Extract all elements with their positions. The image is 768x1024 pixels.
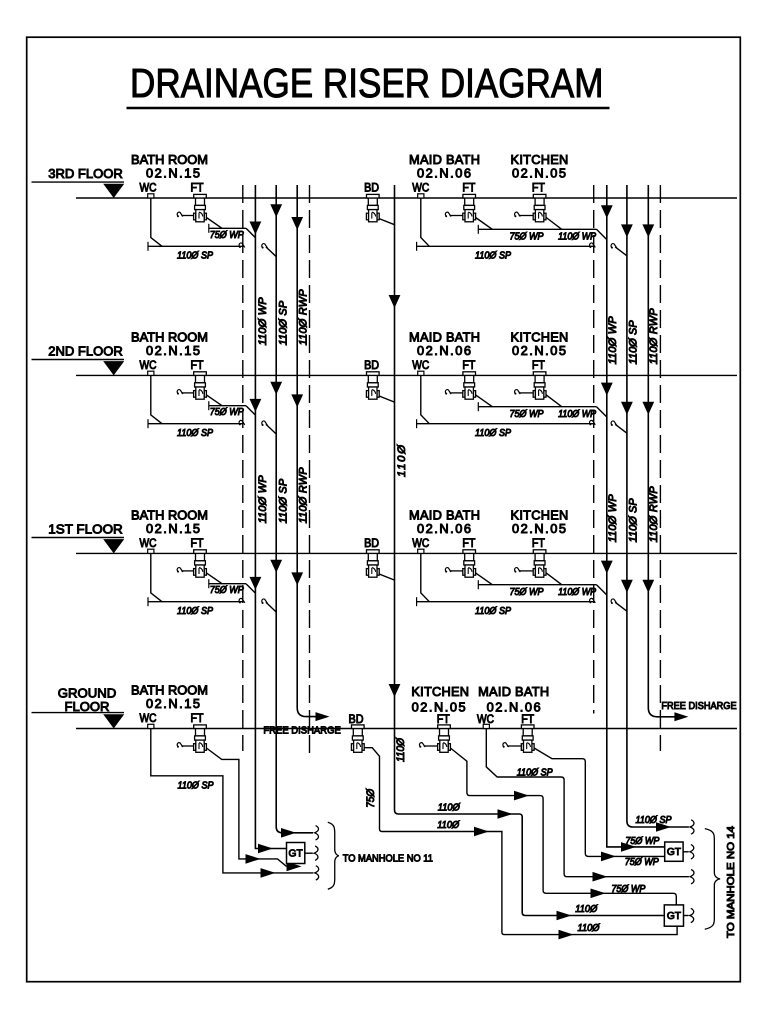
riser label 110&#216; RWP left [298, 467, 310, 524]
riser 110 SP right [627, 185, 689, 827]
pipe GT outlet right lower [684, 915, 689, 917]
pipe break squiggle GT right upper [690, 845, 694, 859]
room label KITCHEN ground [411, 684, 469, 714]
flow arrow maid FT line [601, 852, 616, 862]
pipe label 75 WP maid bath [510, 409, 544, 420]
flow arrow SP riser outfall [281, 828, 296, 838]
svg-text:110Ø WP: 110Ø WP [257, 297, 269, 346]
pipe 75 WP branch bathroom [209, 224, 256, 238]
fixture label FT kitchen [532, 181, 545, 195]
pipe break curl at wall [239, 420, 245, 425]
svg-text:WC: WC [140, 536, 157, 550]
fixture label FT kitchen [532, 536, 545, 550]
svg-text:TO MANHOLE NO 14: TO MANHOLE NO 14 [726, 826, 737, 938]
svg-text:BD: BD [364, 358, 379, 372]
fixture labels WC FT maid bath [412, 536, 475, 550]
riser 110 WP right [607, 185, 665, 847]
pipe break curl at riser right [611, 421, 617, 426]
flow arrow central line 2 [557, 911, 572, 921]
pipe 110 SP branch bathroom [148, 242, 243, 251]
bell drain BD [366, 372, 394, 402]
svg-text:110Ø: 110Ø [396, 444, 408, 477]
svg-text:110Ø SP: 110Ø SP [475, 428, 512, 439]
room label KITCHEN [511, 152, 569, 180]
svg-text:KITCHEN: KITCHEN [411, 684, 469, 699]
pipe label 110 BD line 2 [578, 923, 600, 934]
svg-text:110Ø SP: 110Ø SP [177, 606, 214, 617]
pipe break curl at riser right [611, 599, 617, 604]
svg-text:2ND FLOOR: 2ND FLOOR [48, 343, 122, 358]
svg-text:FT: FT [462, 536, 475, 550]
pipe diagonal into SP riser [266, 424, 276, 434]
room label BATH ROOM [131, 330, 208, 358]
svg-text:DRAINAGE RISER DIAGRAM: DRAINAGE RISER DIAGRAM [130, 60, 604, 106]
pipe WC drop maid bath [421, 198, 430, 246]
pipe diagonal FT outlet kitchen [546, 395, 562, 407]
vent arrow FT maid bath [445, 390, 463, 395]
riser label 110 central below ground [395, 737, 407, 762]
svg-text:110Ø WP: 110Ø WP [558, 231, 596, 242]
WC fixture bathroom [148, 371, 154, 375]
vent arrow FT bathroom ground [177, 743, 194, 748]
riser 110 RWP right [648, 185, 674, 717]
flow arrow WP riser outfall [258, 844, 273, 854]
svg-text:75Ø WP: 75Ø WP [611, 884, 645, 895]
pipe label 110 central line 2 [575, 904, 597, 915]
flow arrow kitchen line 2 [591, 889, 606, 899]
svg-text:FT: FT [437, 712, 450, 726]
flow arrow riser RWP left [291, 217, 303, 230]
pipe WC drop bathroom floor y=375.4 [151, 375, 162, 423]
pipe label 110 SP bathroom [177, 606, 214, 617]
flow arrow riser WP left [250, 399, 262, 412]
flow arrow riser RWP right [642, 402, 654, 415]
pipe break curl at wall right [589, 420, 595, 425]
svg-text:02.N.15: 02.N.15 [146, 166, 200, 181]
riser label 110 central [396, 444, 408, 477]
svg-text:02.N.05: 02.N.05 [512, 343, 566, 358]
pipe break curl at wall right [589, 243, 595, 248]
svg-text:110Ø RWP: 110Ø RWP [648, 486, 660, 543]
fixture labels WC FT maid bath [412, 181, 475, 195]
label FREE DISHARGE left [263, 725, 341, 736]
pipe diagonal into SP riser right [615, 424, 627, 433]
svg-text:GT: GT [667, 911, 681, 922]
riser label 110&#216; WP right [607, 316, 619, 365]
svg-text:110Ø SP: 110Ø SP [278, 300, 290, 345]
riser label 110&#216; SP left [278, 300, 290, 345]
svg-text:02.N.06: 02.N.06 [417, 166, 471, 181]
gully trap GT manhole 14 upper [665, 842, 683, 861]
vent arrow FT bathroom [177, 568, 194, 573]
svg-text:110Ø RWP: 110Ø RWP [298, 289, 310, 346]
room label BATH ROOM ground [131, 683, 208, 711]
pipe WC drop bathroom floor y=553.4 [151, 553, 162, 601]
room label BATH ROOM [131, 152, 208, 180]
pipe break squiggle GT outlet [314, 846, 318, 860]
flow arrow maid WC line [593, 872, 608, 882]
label TO MANHOLE NO 11 [343, 853, 434, 864]
WC fixture maid bath [418, 194, 424, 198]
svg-text:MAID BATH: MAID BATH [478, 684, 549, 699]
floor trap FT bathroom ground [194, 725, 207, 752]
svg-text:FT: FT [462, 181, 475, 195]
svg-text:110Ø WP: 110Ø WP [558, 587, 596, 598]
svg-text:BD: BD [364, 536, 379, 550]
pipe label 110 SP maid bath [475, 428, 512, 439]
pipe diagonal FT outlet bathroom [206, 218, 222, 229]
pipe break curl at wall [239, 598, 245, 603]
flow arrow riser RWP right [642, 580, 654, 593]
flow arrow riser RWP left [291, 394, 303, 407]
floor trap FT kitchen [533, 550, 546, 577]
vent arrow FT bathroom [177, 212, 194, 217]
flow arrow riser WP left [250, 222, 262, 235]
pipe break curl at wall right [589, 598, 595, 603]
svg-text:75Ø WP: 75Ø WP [210, 407, 244, 418]
WC fixture maid bath [418, 549, 424, 553]
svg-text:110Ø SP: 110Ø SP [178, 781, 215, 792]
svg-text:WC: WC [140, 711, 157, 725]
pipe diagonal FT outlet maid bath [476, 218, 493, 230]
flow arrow riser WP right [601, 561, 613, 574]
WC fixture maid bath [418, 371, 424, 375]
label BD [364, 358, 379, 372]
vent arrow FT maid bath [445, 568, 463, 573]
label BD [364, 181, 379, 195]
free discharge arrow right RWP [674, 712, 688, 721]
pipe 110 SP branch maid bath [417, 242, 594, 251]
svg-text:110Ø SP: 110Ø SP [278, 478, 290, 523]
shaft wall dashed left 2 [309, 185, 311, 759]
svg-text:FT: FT [462, 358, 475, 372]
flow arrow right SP outfall [656, 822, 671, 832]
svg-text:WC: WC [477, 712, 494, 726]
pipe 110 SP branch bathroom [148, 419, 243, 428]
pipe label 110 SP bathroom [177, 428, 214, 439]
gully trap GT manhole 11 [287, 843, 305, 864]
pipe diagonal into SP riser right [615, 247, 627, 256]
riser label 110&#216; RWP right [648, 486, 660, 543]
svg-text:110Ø RWP: 110Ø RWP [298, 467, 310, 524]
svg-text:02.N.15: 02.N.15 [146, 696, 200, 711]
vent arrow FT kitchen ground [419, 743, 437, 748]
svg-text:02.N.05: 02.N.05 [512, 521, 566, 536]
svg-text:75Ø WP: 75Ø WP [625, 836, 659, 847]
svg-text:FT: FT [191, 181, 204, 195]
floor trap FT kitchen [533, 372, 546, 399]
gully trap GT manhole 14 lower [664, 905, 683, 926]
riser label 110&#216; RWP left [298, 289, 310, 346]
pipe label 110 SP maid ground [517, 768, 554, 779]
room label KITCHEN [511, 508, 569, 536]
vent arrow FT maid ground [503, 743, 522, 748]
flow arrow riser WP right [601, 205, 613, 218]
label TO MANHOLE NO 14 [726, 826, 737, 938]
flow arrow into gully trap [287, 862, 302, 872]
flow arrow central line 1 [498, 809, 513, 819]
riser label 110&#216; WP right [607, 494, 619, 543]
shaft wall dashed right 1 [593, 185, 595, 714]
pipe label 110 SP maid bath [475, 606, 512, 617]
svg-text:WC: WC [140, 181, 157, 195]
riser 110 WP left (waste pipe) [255, 185, 286, 849]
floor line 2ND FLOOR [32, 343, 738, 375]
vent arrow FT maid bath [445, 212, 463, 217]
bell drain BD [366, 550, 394, 580]
svg-text:110Ø SP: 110Ø SP [517, 768, 554, 779]
riser 110 RWP left (rain water pipe) [297, 185, 316, 717]
floor trap FT maid bath [463, 550, 476, 577]
svg-text:110Ø: 110Ø [437, 820, 459, 831]
pipe 75/110 WP branch to WP riser [478, 225, 607, 240]
pipe label 75 WP maid ground [625, 857, 659, 868]
floor trap FT maid bath ground [521, 725, 534, 752]
pipe label 75 WP maid bath [510, 231, 544, 242]
svg-text:FT: FT [191, 711, 204, 725]
floor line 1ST FLOOR [32, 521, 738, 553]
flow arrow riser SP right [621, 402, 633, 415]
floor line 3RD FLOOR [32, 166, 738, 198]
flow arrow FT line ground [246, 854, 261, 864]
svg-text:TO MANHOLE NO 11: TO MANHOLE NO 11 [343, 853, 434, 864]
WC fixture bathroom [148, 194, 154, 198]
flow arrow riser SP left [270, 204, 282, 217]
svg-text:75Ø WP: 75Ø WP [625, 857, 659, 868]
pipe GT outlet right upper [683, 851, 689, 853]
pipe diagonal FT outlet kitchen [546, 573, 562, 585]
pipe label 110 SP bathroom [177, 251, 214, 262]
svg-text:FT: FT [532, 181, 545, 195]
shaft wall dashed right 2 [659, 185, 661, 751]
pipe label 75 WP kitchen ground [611, 884, 645, 895]
svg-text:110Ø SP: 110Ø SP [627, 320, 639, 365]
flow arrow riser central [389, 295, 401, 308]
svg-text:02.N.15: 02.N.15 [146, 521, 200, 536]
pipe label 110 central line [438, 803, 460, 814]
pipe WC drop maid bath [421, 375, 430, 423]
pipe WC drop maid bath [421, 553, 430, 601]
floor trap FT kitchen ground [438, 725, 451, 752]
pipe label 75 WP bathroom [210, 230, 244, 241]
flow arrow BD line 1 [474, 827, 489, 837]
svg-text:75Ø WP: 75Ø WP [510, 409, 544, 420]
svg-text:110Ø: 110Ø [578, 923, 600, 934]
svg-text:110Ø SP: 110Ø SP [177, 251, 214, 262]
svg-text:FLOOR: FLOOR [65, 699, 110, 714]
floor line GROUND FLOOR [32, 686, 738, 729]
vent arrow FT kitchen [514, 390, 533, 395]
svg-text:110Ø WP: 110Ø WP [257, 475, 269, 524]
pipe label 75 WP right outfall [625, 836, 659, 847]
label BD ground [349, 712, 364, 726]
floor trap FT maid bath [463, 194, 476, 221]
room label MAID BATH [409, 152, 480, 180]
vent arrow FT kitchen [514, 568, 533, 573]
svg-text:02.N.06: 02.N.06 [417, 343, 471, 358]
riser 110 central (bell drains) [395, 185, 665, 916]
fixture labels WC FT bathroom [140, 358, 204, 372]
svg-text:02.N.05: 02.N.05 [512, 166, 566, 181]
svg-text:FT: FT [532, 536, 545, 550]
svg-text:110Ø SP: 110Ø SP [627, 498, 639, 543]
fixture labels WC FT maid bath [412, 358, 475, 372]
floor trap FT bathroom [194, 194, 207, 221]
pipe diagonal into SP riser [266, 602, 276, 612]
brace manhole 11 [328, 822, 339, 889]
pipe GT outlet to manhole 11 [305, 852, 313, 854]
svg-text:75Ø WP: 75Ø WP [210, 230, 244, 241]
pipe label 110 SP ground bathroom [178, 781, 215, 792]
free discharge arrow left RWP [316, 712, 330, 721]
svg-text:110Ø: 110Ø [395, 737, 407, 762]
fixture labels WC FT bathroom ground [140, 711, 204, 725]
pipe break curl at riser right [611, 244, 617, 249]
svg-text:110Ø: 110Ø [438, 803, 460, 814]
pipe 75/110 WP branch to WP riser [478, 402, 607, 417]
pipe break squiggle right SP [690, 820, 694, 834]
pipe 110 SP branch maid bath [417, 597, 594, 606]
riser label 110&#216; SP left [278, 478, 290, 523]
flow arrow right WP outfall [621, 842, 636, 852]
svg-text:WC: WC [140, 358, 157, 372]
svg-text:FT: FT [191, 358, 204, 372]
riser label 110&#216; WP left [257, 297, 269, 346]
flow arrow riser SP left [270, 382, 282, 395]
flow arrow riser WP right [601, 383, 613, 396]
svg-text:GT: GT [667, 847, 681, 858]
svg-text:110Ø RWP: 110Ø RWP [648, 308, 660, 365]
pipe break curl at riser side [262, 244, 268, 249]
svg-text:110Ø: 110Ø [575, 904, 597, 915]
svg-text:FT: FT [521, 712, 534, 726]
pipe FT outlet bathroom ground [206, 748, 286, 866]
pipe label 75 WP bathroom [210, 407, 244, 418]
pipe break curl at wall [239, 243, 245, 248]
fixture labels WC FT bathroom [140, 181, 204, 195]
fixture label FT kitchen [532, 358, 545, 372]
flow arrow riser SP right [621, 580, 633, 593]
riser 110 SP left (soil pipe) [276, 185, 313, 833]
svg-text:75Ø: 75Ø [365, 788, 377, 808]
svg-text:110Ø SP: 110Ø SP [475, 251, 512, 262]
pipe label 110 WP kitchen [558, 409, 596, 420]
pipe break squiggle GT right lower [690, 908, 694, 922]
vent arrow FT bathroom [177, 390, 194, 395]
room label BATH ROOM [131, 508, 208, 536]
pipe label 75 BD drop [365, 788, 377, 808]
vent arrow FT kitchen [514, 212, 533, 217]
fixture label FT kitchen ground [437, 712, 450, 726]
svg-text:110Ø SP: 110Ø SP [177, 428, 214, 439]
svg-text:110Ø WP: 110Ø WP [607, 316, 619, 365]
svg-text:FT: FT [191, 536, 204, 550]
bell drain BD [366, 194, 394, 224]
brace manhole 14 [705, 829, 720, 930]
shaft wall dashed left 1 [242, 185, 244, 751]
svg-text:BD: BD [364, 181, 379, 195]
flow arrow kitchen line 1 [514, 791, 529, 801]
WC fixture bathroom ground [148, 724, 154, 728]
pipe 75 WP branch bathroom [209, 401, 256, 415]
pipe label 110 WP kitchen [558, 231, 596, 242]
riser label 110&#216; SP right [627, 498, 639, 543]
flow arrow riser central lower [389, 684, 401, 697]
title DRAINAGE RISER DIAGRAM [127, 60, 610, 108]
WC fixture maid bath ground [483, 724, 489, 728]
pipe diagonal FT outlet maid bath [476, 395, 493, 407]
bell drain BD ground with 75 drop [351, 725, 677, 935]
pipe break curl at riser side [262, 421, 268, 426]
riser label 110&#216; RWP right [648, 308, 660, 365]
room label KITCHEN [511, 330, 569, 358]
svg-text:75Ø WP: 75Ø WP [510, 231, 544, 242]
pipe break curl at riser side [262, 599, 268, 604]
svg-text:02.N.06: 02.N.06 [417, 521, 471, 536]
pipe diagonal FT outlet kitchen [546, 218, 562, 230]
fixture labels WC FT maid ground [477, 712, 534, 726]
floor trap FT maid bath [463, 372, 476, 399]
flow arrow riser RWP right [642, 224, 654, 237]
flow arrow WC line [261, 868, 276, 878]
pipe FT outlet kitchen ground [450, 748, 676, 905]
pipe diagonal into SP riser [266, 247, 276, 257]
room label MAID BATH [409, 508, 480, 536]
svg-text:3RD FLOOR: 3RD FLOOR [48, 166, 122, 181]
flow arrow riser SP right [621, 224, 633, 237]
pipe break squiggle maid WC line [690, 870, 694, 884]
pipe WC drop maid bath ground [486, 729, 689, 877]
flow arrow BD line 2 [559, 930, 574, 940]
floor trap FT bathroom [194, 372, 207, 399]
pipe diagonal FT outlet bathroom [206, 395, 222, 406]
pipe 75 WP branch bathroom [209, 579, 256, 593]
svg-text:02.N.15: 02.N.15 [146, 343, 200, 358]
svg-text:BD: BD [349, 712, 364, 726]
pipe label 110 WP kitchen [558, 587, 596, 598]
svg-text:FREE DISHARGE: FREE DISHARGE [661, 701, 736, 712]
pipe 110 SP branch maid bath [417, 419, 594, 428]
svg-text:110Ø SP: 110Ø SP [475, 606, 512, 617]
svg-text:WC: WC [412, 536, 429, 550]
flow arrow riser RWP left [291, 572, 303, 585]
svg-text:FREE DISHARGE: FREE DISHARGE [263, 725, 341, 736]
pipe diagonal FT outlet bathroom [206, 573, 222, 584]
pipe WC drop bathroom floor y=198.0 [151, 198, 162, 246]
svg-text:FT: FT [532, 358, 545, 372]
pipe diagonal into SP riser right [615, 602, 627, 611]
label BD [364, 536, 379, 550]
pipe FT outlet maid bath ground [534, 748, 665, 856]
pipe label 110 SP right outfall [636, 815, 673, 826]
floor trap FT kitchen [533, 194, 546, 221]
pipe label 110 SP maid bath [475, 251, 512, 262]
riser label 110&#216; WP left [257, 475, 269, 524]
svg-text:110Ø SP: 110Ø SP [636, 815, 673, 826]
pipe break squiggle SP outfall [315, 826, 319, 840]
riser label 110&#216; SP right [627, 320, 639, 365]
room label MAID BATH [409, 330, 480, 358]
pipe break squiggle WC line [315, 866, 319, 880]
flow arrow riser SP left [270, 560, 282, 573]
pipe label 75 WP bathroom [210, 585, 244, 596]
pipe WC drop bathroom ground to manhole 11 [151, 729, 313, 873]
svg-text:110Ø WP: 110Ø WP [607, 494, 619, 543]
pipe 75/110 WP branch to WP riser [478, 580, 607, 595]
pipe diagonal FT outlet maid bath [476, 573, 493, 585]
svg-text:75Ø WP: 75Ø WP [510, 587, 544, 598]
WC fixture bathroom [148, 549, 154, 553]
